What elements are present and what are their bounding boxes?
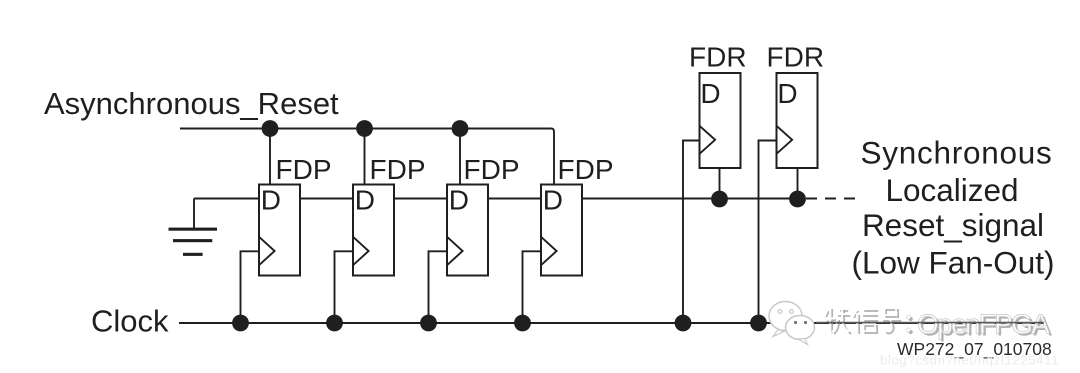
svg-text:D: D [449,185,469,216]
svg-text:OpenFPGA: OpenFPGA [917,309,1050,340]
wire clock feed to U4 [523,251,543,323]
svg-text:D: D [261,185,281,216]
junction dot clock to U5 [675,315,692,332]
svg-text:D: D [700,78,720,109]
svg-text:Synchronous: Synchronous [860,135,1052,171]
wire dashed reset_signal stub [806,198,856,200]
flip-flop U4 FDP [541,154,614,276]
wire reset bus down to U2 PRE pin [364,129,366,186]
wire ground to U1 D input [194,198,259,200]
wire reset bus down to U1 PRE pin [269,129,271,186]
wire U1 Q to U2 D [300,198,353,200]
svg-text:Asynchronous_Reset: Asynchronous_Reset [44,86,339,121]
watermark text 微信号: OpenFPGA [816,307,1052,342]
watermark WeChat logo [769,302,815,345]
watermark strikethrough line [816,322,1044,324]
ground [169,199,218,256]
svg-text:FDP: FDP [276,154,332,185]
svg-text:FDP: FDP [558,154,614,185]
flip-flop U6 FDR [767,42,825,169]
svg-text:D: D [777,78,797,109]
net label Synchronous Localized Reset_signal (Low Fan-Out) [851,135,1054,281]
junction dot U5 output [711,191,728,208]
junction dot clock to U3 [420,315,437,332]
flip-flop U3 FDP [447,154,520,276]
wire U4 Q output line [582,198,804,200]
wire U5 output pin to reset_signal line [719,168,721,199]
junction dot U6 output [789,191,806,208]
junction dot clock to U6 [750,315,767,332]
junction dot reset bus to U1 [262,120,279,137]
svg-text:blog?csdn?net/hqzl1225411: blog?csdn?net/hqzl1225411 [880,353,1059,368]
junction dot reset bus to U3 [452,120,469,137]
svg-text:(Low Fan-Out): (Low Fan-Out) [851,245,1054,281]
junction dot clock to U4 [514,315,531,332]
wire clock feed to U6 [759,141,777,324]
flip-flop U1 FDP [259,154,332,276]
wire reset bus down to U3 PRE pin [459,129,461,186]
wire clock feed to U5 [683,141,700,324]
junction dot reset bus to U2 [356,120,373,137]
wire Clock line [179,322,1044,324]
flip-flop U5 FDR [689,42,747,169]
wire U6 output pin to reset_signal line [797,168,799,199]
svg-text:FDR: FDR [767,42,825,73]
svg-text:FDR: FDR [689,42,747,73]
wire U2 Q to U3 D [394,198,447,200]
wire clock feed to U2 [335,251,355,323]
wire clock feed to U3 [429,251,449,323]
wire Asynchronous_Reset bus with corner down to FDP4 PRE [180,129,554,186]
svg-text:Clock: Clock [91,304,169,339]
svg-text:D: D [543,185,563,216]
wire clock feed to U1 [241,251,261,323]
svg-text:Reset_signal: Reset_signal [862,207,1044,243]
svg-text:FDP: FDP [370,154,426,185]
junction dot clock to U2 [326,315,343,332]
svg-text:Localized: Localized [885,172,1018,208]
wire U3 Q to U4 D [488,198,541,200]
junction dot clock to U1 [232,315,249,332]
flip-flop U2 FDP [353,154,426,276]
svg-text:FDP: FDP [464,154,520,185]
svg-text:D: D [355,185,375,216]
